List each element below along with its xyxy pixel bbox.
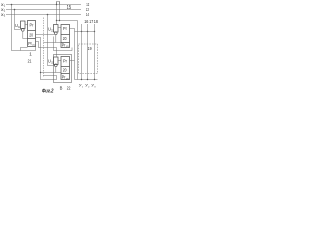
wire node line 16-17-18 <box>75 31 95 33</box>
svg-text:Рг: Рг <box>63 26 67 31</box>
element U11 small box cell 1 <box>21 21 26 29</box>
wire loop under cell 2 <box>54 37 73 51</box>
wire feedback into register2 section <box>44 42 62 44</box>
svg-text:17: 17 <box>89 19 93 25</box>
node junction dot staple on x1 <box>56 4 57 5</box>
wire input line x1 <box>6 4 81 6</box>
dashed feedback line <box>43 18 45 77</box>
wire U21 output to register <box>58 27 61 29</box>
wire cell1 output to cell3 small box top <box>36 42 57 57</box>
wire vertical 18 <box>94 24 96 80</box>
wire long vertical to output bus <box>77 21 79 80</box>
svg-text:14: 14 <box>86 12 89 17</box>
svg-text:1: 1 <box>4 4 6 8</box>
wire from line x3 to cell3 bubble <box>48 15 55 66</box>
wire from line x1 loop around cell 1 <box>12 5 36 51</box>
svg-text:20: 20 <box>63 68 67 73</box>
node junction dot on x3 at x=47 <box>47 14 49 16</box>
inverter bubble cell 1 <box>21 29 24 32</box>
divider RG3 lower <box>61 73 70 75</box>
divider RG3 upper <box>61 66 70 68</box>
wire column branch into register3 <box>41 72 62 74</box>
register RG2 big box cell 2 <box>61 25 70 48</box>
svg-text:2: 2 <box>88 86 90 88</box>
wire vertical from staple to cell2 box top <box>56 2 58 25</box>
wire vertical 16 <box>81 24 83 80</box>
wire vertical 17 <box>87 24 89 80</box>
wire input line x3 <box>6 14 81 16</box>
wire register2 output to node line <box>70 29 75 80</box>
node dot at (81,31.5) <box>81 31 82 32</box>
svg-text:22: 22 <box>67 85 71 90</box>
svg-text:2: 2 <box>4 9 6 13</box>
svg-text:15: 15 <box>67 5 72 11</box>
node junction dot at (59.5,20.5) <box>59 20 60 21</box>
svg-text:20: 20 <box>63 36 67 41</box>
wire U11 output to register <box>25 24 28 26</box>
divider RG2 lower <box>61 42 70 44</box>
element U21 small box cell 2 <box>54 25 59 33</box>
svg-text:1: 1 <box>29 52 32 57</box>
wire branch into cell1 box bottom-left <box>21 48 28 51</box>
svg-text:31: 31 <box>51 62 54 65</box>
bus junction dot 16 <box>81 79 82 80</box>
register RG3 big box cell 3 <box>61 57 70 80</box>
divider RG2 upper <box>61 34 70 36</box>
wire cell1 output to cell2 bubble <box>36 34 55 36</box>
dashed block 19 <box>79 44 98 74</box>
svg-text:3: 3 <box>94 86 96 88</box>
svg-text:Рг: Рг <box>63 58 67 63</box>
wire output bus <box>75 79 98 81</box>
svg-text:(1): (1) <box>32 44 35 46</box>
divider RG1 upper <box>28 30 36 32</box>
wire input line x2 <box>6 9 81 11</box>
wire cell1 output down column, under cell3 to riser <box>36 38 57 80</box>
wire bubble1 stem into register section <box>23 31 28 38</box>
bus junction dot 18 <box>94 79 95 80</box>
wire hop/staple over line x1 <box>57 2 60 5</box>
node junction dot on x2 at x=14 <box>14 9 16 11</box>
svg-text:18: 18 <box>94 19 98 25</box>
inverter bubble cell 2 <box>54 32 57 35</box>
node dot at (87.5,31.5) <box>87 31 88 32</box>
svg-text:3: 3 <box>4 14 6 18</box>
svg-text:21: 21 <box>28 59 32 64</box>
wire from line x2 to inverter bubble of cell 1 <box>15 10 22 30</box>
element U31 small box cell 3 <box>54 57 59 65</box>
node junction dot on x1 at x=11 <box>11 4 13 6</box>
node junction dot at (56.5,20.5) <box>56 20 57 21</box>
svg-text:19: 19 <box>88 46 92 51</box>
svg-text:1: 1 <box>82 86 84 88</box>
wire U31 output to register <box>58 60 61 62</box>
enclosure box cell 3 <box>54 55 72 83</box>
svg-text:20: 20 <box>29 32 33 37</box>
svg-text:16: 16 <box>84 19 88 25</box>
wire node-15 horizontal <box>57 20 78 22</box>
svg-text:В: В <box>60 85 63 90</box>
wire bubble3 stem <box>55 67 57 73</box>
svg-text:Рг: Рг <box>30 22 34 27</box>
register RG1 big box cell 1 <box>28 21 36 47</box>
wire register3 output to bus column <box>70 60 75 62</box>
bus junction dot 17 <box>87 79 88 80</box>
svg-text:(3): (3) <box>66 78 69 80</box>
node dot at (40.5,72) <box>40 72 41 73</box>
inverter bubble cell 3 <box>54 64 57 67</box>
node dot at (94,31.5) <box>94 31 95 32</box>
svg-text:(2): (2) <box>66 46 69 48</box>
wire vertical x59.5 to node-15 horizontal <box>59 2 61 21</box>
wire bubble2 stem <box>55 35 57 43</box>
divider RG1 lower <box>28 38 36 40</box>
svg-text:Фиг.2: Фиг.2 <box>42 88 54 94</box>
